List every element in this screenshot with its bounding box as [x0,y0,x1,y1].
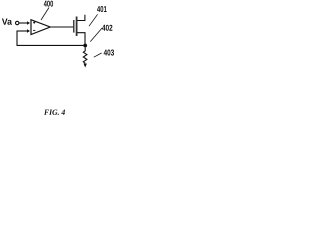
leader 400 [41,8,49,21]
node 402 junction dot [83,44,87,48]
wire input to op-amp plus [19,22,27,24]
leader 402 [90,28,102,42]
transistor channel bar [76,17,78,37]
minus mark [33,29,35,31]
input terminal circle [16,21,19,24]
arrowhead into plus input [27,21,30,24]
leader 401 [89,14,98,26]
arrowhead down at resistor end [84,64,87,68]
op-amp U 400 triangle [31,20,50,35]
node Va label [2,19,12,25]
label 400 [44,1,53,7]
plus mark [33,22,35,24]
transistor Q 401 gate bar [73,20,75,33]
wire op-amp output to gate [50,26,73,28]
caption FIG. 4 [44,110,65,115]
arrowhead into minus input [27,29,30,32]
source wire down to node [77,33,85,44]
label 403 [104,49,114,55]
wire feedback to minus input [17,30,27,32]
label 401 [97,6,107,12]
wire feedback left vertical [16,31,18,46]
drain wire up stub [77,15,85,21]
leader 403 [94,53,102,57]
wire feedback bottom [17,44,85,46]
resistor R 403 zigzag [83,47,87,63]
label 402 [102,25,112,31]
